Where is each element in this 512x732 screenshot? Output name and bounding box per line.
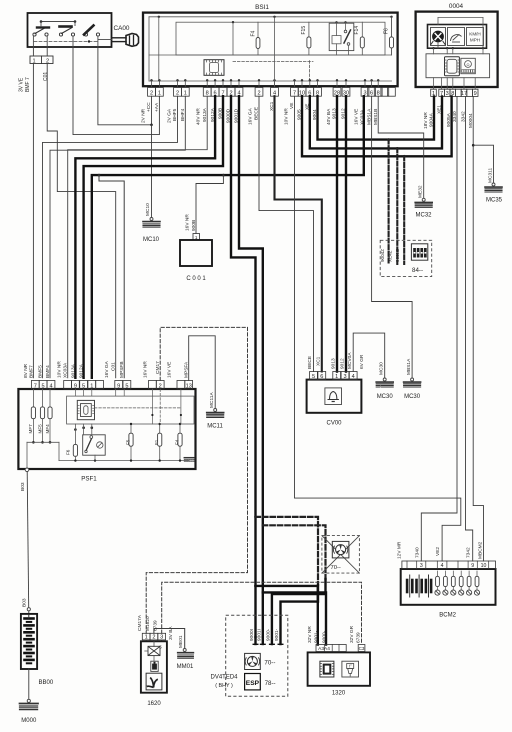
cluster pin row xyxy=(431,89,437,96)
svg-text:3: 3 xyxy=(420,563,423,569)
buzzer CV00 xyxy=(307,380,362,413)
svg-text:3: 3 xyxy=(343,374,346,380)
crossed-out option box 70 xyxy=(322,536,360,574)
odometer symbol xyxy=(461,58,475,73)
wire 3342 cluster to BDM2 xyxy=(466,96,473,561)
engine fusebox PSF1 xyxy=(18,389,195,469)
svg-text:7: 7 xyxy=(293,91,296,97)
svg-text:MBS1A: MBS1A xyxy=(406,358,412,375)
svg-text:Ω: Ω xyxy=(467,62,470,67)
PSF1 relay xyxy=(83,435,106,455)
svg-text:XC1: XC1 xyxy=(316,356,322,366)
svg-text:0004: 0004 xyxy=(449,3,464,10)
wire M1620 to ground MM01 xyxy=(154,629,185,649)
wire 9012 thick BSI1 to CV00 xyxy=(345,96,347,371)
svg-text:16V GA: 16V GA xyxy=(248,107,254,125)
svg-text:9: 9 xyxy=(474,91,477,97)
svg-text:1: 1 xyxy=(145,634,148,640)
svg-text:BCM2: BCM2 xyxy=(439,613,456,619)
ground MC30 left xyxy=(383,378,386,381)
ignition switch CA00 xyxy=(28,13,112,47)
PSF1 inner dashed link xyxy=(95,407,161,409)
dashed wires to connector 84 xyxy=(387,138,390,141)
fuse F14 xyxy=(361,22,363,55)
svg-text:MPH: MPH xyxy=(470,38,480,43)
wire 9000D thick staircase to engine bay xyxy=(231,96,256,637)
svg-text:40V NR: 40V NR xyxy=(196,108,202,125)
svg-text:A3A4: A3A4 xyxy=(318,646,330,652)
BSI1 inner structure xyxy=(149,16,392,18)
svg-text:7342: 7342 xyxy=(466,547,472,558)
svg-text:DV4TED4: DV4TED4 xyxy=(210,675,238,681)
svg-text:M1620: M1620 xyxy=(145,616,151,631)
BDM2 pin strip xyxy=(402,561,496,569)
svg-text:5: 5 xyxy=(312,374,315,380)
svg-text:( BHY ): ( BHY ) xyxy=(215,683,233,689)
dashed engine wire variant B xyxy=(263,525,326,579)
svg-text:2: 2 xyxy=(150,91,153,97)
svg-text:BMF4: BMF4 xyxy=(45,365,51,378)
svg-text:4: 4 xyxy=(441,563,444,569)
svg-text:16V NR: 16V NR xyxy=(185,214,191,231)
KM/H MPH text icon xyxy=(467,28,484,46)
svg-text:2: 2 xyxy=(152,634,155,640)
svg-text:MBCM2: MBCM2 xyxy=(477,541,483,559)
dashed engine wire variant A xyxy=(256,517,319,585)
connector C001 xyxy=(193,234,200,241)
svg-text:F6: F6 xyxy=(65,449,70,455)
wire XC03A thick BSI1 to PSF1 long xyxy=(92,96,364,378)
PSF1 pin rows xyxy=(31,381,39,390)
svg-text:9: 9 xyxy=(117,383,120,389)
svg-text:MC35: MC35 xyxy=(486,198,503,204)
svg-text:BSI1: BSI1 xyxy=(255,4,269,11)
svg-text:10: 10 xyxy=(481,563,487,569)
svg-text:F4: F4 xyxy=(250,30,256,36)
PSF1 internals xyxy=(67,396,194,424)
svg-text:3V VE: 3V VE xyxy=(19,77,25,92)
1620 lamp icon xyxy=(153,641,155,646)
wire MBS1A BSI1 to ground MC30 xyxy=(372,96,413,377)
svg-text:17: 17 xyxy=(461,91,467,97)
wire BHF5 BSI1 to PSF1 xyxy=(43,96,178,378)
svg-text:MC11A: MC11A xyxy=(209,392,215,408)
svg-text:1: 1 xyxy=(184,91,187,97)
svg-text:6: 6 xyxy=(320,374,323,380)
ground MM01 xyxy=(183,649,186,652)
speedometer icon xyxy=(448,28,465,46)
svg-text:10V NR: 10V NR xyxy=(56,361,62,378)
ground M000 xyxy=(28,669,30,699)
svg-text:10V NR: 10V NR xyxy=(284,108,290,125)
instrument cluster 0004 xyxy=(416,12,498,87)
1620 battery icon xyxy=(151,661,158,671)
1620 fan icon xyxy=(146,673,162,690)
wire MPSFB into PSF1 xyxy=(98,174,101,177)
wire +AA from CA00 to BSI1 xyxy=(73,47,159,135)
connector 84 dip component xyxy=(411,244,427,260)
svg-text:MC10: MC10 xyxy=(145,203,151,216)
svg-text:9000-: 9000- xyxy=(266,628,272,641)
glow plug box 1320 xyxy=(308,652,370,685)
svg-text:40V BA: 40V BA xyxy=(326,108,332,125)
wire B03 inside PSF1 xyxy=(26,442,28,468)
engine wire ends 9000I 9001I xyxy=(254,637,256,644)
wire VE BSI1 down and around to BDM2 xyxy=(295,96,461,561)
svg-text:9: 9 xyxy=(74,383,77,389)
svg-text:9001-: 9001- xyxy=(313,630,319,643)
svg-text:1: 1 xyxy=(158,91,161,97)
wire MBS1B BSI1 to ground MC32 xyxy=(378,96,424,198)
wire XE thick BSI1 to cluster xyxy=(310,96,442,148)
bell icon xyxy=(330,392,337,400)
1320 cpu icon xyxy=(320,661,334,677)
wire CM17 dashed from PSF1 to junction xyxy=(146,327,247,633)
svg-text:1320: 1320 xyxy=(332,691,346,697)
svg-text:F14: F14 xyxy=(354,26,360,35)
wire branch to connector C001 xyxy=(222,174,225,177)
svg-text:4: 4 xyxy=(49,383,52,389)
svg-text:PSF1: PSF1 xyxy=(81,476,97,483)
wire BECE BSI1 to CV00 xyxy=(259,96,314,371)
svg-text:70--: 70-- xyxy=(331,565,341,571)
svg-text:ME32: ME32 xyxy=(418,185,424,198)
svg-text:9013A: 9013A xyxy=(70,363,76,378)
microcontroller symbol in BSI1 xyxy=(204,60,224,76)
wire branch to MC35 ground xyxy=(472,144,475,147)
svg-text:M000: M000 xyxy=(21,718,37,724)
ground MC10 xyxy=(150,218,153,221)
svg-text:1620: 1620 xyxy=(147,701,161,707)
svg-text:MF4: MF4 xyxy=(45,424,50,434)
junction dots on engine wires xyxy=(254,516,257,519)
CV00 pin row xyxy=(310,372,318,380)
1320 injector icon xyxy=(342,661,359,677)
svg-text:VE2: VE2 xyxy=(435,547,441,556)
svg-text:KM/H: KM/H xyxy=(469,32,480,37)
svg-text:32V NR: 32V NR xyxy=(307,626,313,643)
BSI1 built-in systems interface box xyxy=(143,13,398,87)
svg-text:1: 1 xyxy=(90,383,93,389)
svg-text:MCV0A: MCV0A xyxy=(347,352,353,369)
svg-text:CA00: CA00 xyxy=(114,25,130,32)
svg-text:70--: 70-- xyxy=(264,659,275,666)
wire BHF4 BSI1 to PSF1 xyxy=(50,96,185,378)
svg-text:9: 9 xyxy=(471,563,474,569)
fuse F4 xyxy=(257,22,259,55)
wire 9013 thick BSI1 to CV00 xyxy=(336,96,338,371)
branches to injection pump 1320 xyxy=(254,585,257,588)
BSI1 bottom pin connectors xyxy=(148,88,156,97)
wire branch to MC10 ground xyxy=(150,124,153,127)
svg-text:MF7: MF7 xyxy=(28,424,33,434)
svg-text:ESP: ESP xyxy=(246,680,260,687)
PSF1 pin drop wires inside xyxy=(74,389,76,396)
svg-text:MM01: MM01 xyxy=(177,664,194,670)
svg-text:F15: F15 xyxy=(301,26,307,35)
svg-text:MC311: MC311 xyxy=(487,168,493,183)
svg-text:B03: B03 xyxy=(21,598,27,607)
svg-text:9000-: 9000- xyxy=(322,630,328,643)
BDM2 internal fuses xyxy=(437,571,439,576)
svg-text:9005Z: 9005Z xyxy=(395,249,400,262)
svg-text:6: 6 xyxy=(370,91,373,97)
fuse F6 in PSF1 xyxy=(74,428,77,431)
ground MC32 xyxy=(422,198,425,201)
svg-text:CV00: CV00 xyxy=(326,421,342,427)
ESP icon in ECU box xyxy=(245,674,261,690)
svg-text:7340: 7340 xyxy=(414,547,420,558)
svg-text:XC03A: XC03A xyxy=(63,362,69,378)
wire 3340 cluster to BDM2 xyxy=(421,96,457,561)
wire B03 PSF1 to battery xyxy=(25,468,29,472)
svg-text:t°: t° xyxy=(349,664,352,669)
svg-text:BECE: BECE xyxy=(307,356,313,369)
pre-post heating connector 1620 xyxy=(142,633,150,640)
cluster upper icon strip xyxy=(428,25,487,49)
svg-text:C01: C01 xyxy=(43,72,49,81)
svg-text:F1: F1 xyxy=(154,439,159,445)
svg-text:BMF 7: BMF 7 xyxy=(25,77,31,92)
cluster cpu symbol xyxy=(445,57,460,76)
svg-text:2: 2 xyxy=(257,91,260,97)
svg-text:MC30: MC30 xyxy=(404,394,421,400)
svg-text:9000I: 9000I xyxy=(249,629,255,641)
BSI1 internal dashed control lines xyxy=(233,61,313,63)
svg-text:32V GR: 32V GR xyxy=(349,625,355,643)
PSF1 bottom bus xyxy=(58,442,60,460)
svg-text:1: 1 xyxy=(335,374,338,380)
wire 9012A thick BSI1 to PSF1 xyxy=(75,96,215,378)
svg-text:4: 4 xyxy=(352,374,355,380)
wire +CC from CA00 to BSI1 xyxy=(98,47,152,125)
ground MC30 right xyxy=(411,378,414,381)
engine relay box BDM2 xyxy=(401,569,496,605)
diesel injection ECU dashed box DV4TED4 xyxy=(226,615,288,696)
wire 9001D thick staircase to engine bay xyxy=(239,96,263,637)
svg-text:C01: C01 xyxy=(111,362,117,371)
svg-text:BMF5: BMF5 xyxy=(37,365,43,378)
wire 900B thick BSI1 to PSF1 xyxy=(84,96,223,378)
svg-text:84--: 84-- xyxy=(412,267,423,274)
svg-text:MC32: MC32 xyxy=(415,213,432,219)
svg-text:CM17A: CM17A xyxy=(137,614,143,631)
wire C01 from CA00 connector to PSF1 xyxy=(47,64,116,378)
svg-text:5: 5 xyxy=(125,383,128,389)
ground MC11 xyxy=(214,409,217,412)
svg-text:2: 2 xyxy=(176,91,179,97)
svg-text:18V NR: 18V NR xyxy=(423,112,429,129)
svg-text:12V MR: 12V MR xyxy=(396,541,402,559)
svg-text:MC30: MC30 xyxy=(379,362,385,375)
svg-text:F4: F4 xyxy=(174,439,179,445)
svg-text:F6: F6 xyxy=(384,28,390,34)
svg-text:5: 5 xyxy=(82,383,85,389)
svg-text:MC11: MC11 xyxy=(207,424,223,430)
svg-text:F5: F5 xyxy=(125,439,130,445)
wire 6739 dashed from 1620 to 1320 xyxy=(162,582,362,644)
svg-text:7: 7 xyxy=(34,383,37,389)
svg-text:16V GA: 16V GA xyxy=(104,360,110,378)
cluster lower electronics box xyxy=(426,54,490,78)
svg-text:MC30: MC30 xyxy=(377,394,394,400)
svg-text:900B: 900B xyxy=(191,220,197,231)
svg-text:9001I: 9001I xyxy=(257,629,263,641)
svg-text:2V NR: 2V NR xyxy=(141,108,147,123)
svg-text:8: 8 xyxy=(206,91,209,97)
svg-text:9012: 9012 xyxy=(340,358,346,369)
BDM2 internals battery cells xyxy=(409,575,411,597)
svg-text:5: 5 xyxy=(42,383,45,389)
svg-text:3: 3 xyxy=(160,634,163,640)
svg-text:B03: B03 xyxy=(20,482,26,491)
engine wire end ticks xyxy=(253,643,258,645)
svg-text:13: 13 xyxy=(186,383,192,389)
fuses MF7 MF5 MF4 xyxy=(32,389,34,442)
wire 9005 thick BSI1 to cluster xyxy=(302,96,452,156)
wire MPSFA from PSF1 to ground MC11 xyxy=(189,336,216,409)
svg-text:MF5: MF5 xyxy=(37,424,42,434)
svg-text:1: 1 xyxy=(32,58,35,64)
svg-text:XE4Z: XE4Z xyxy=(388,250,393,262)
svg-text:BMF7: BMF7 xyxy=(28,365,34,378)
svg-text:78--: 78-- xyxy=(265,680,276,687)
fuses F5 F1 F4 in PSF1 xyxy=(130,424,132,461)
svg-text:C 0 0 1: C 0 0 1 xyxy=(186,276,206,282)
wire XC1 BSI1 to CV00 xyxy=(275,96,322,371)
svg-text:2: 2 xyxy=(159,383,162,389)
1320 pins xyxy=(316,645,346,652)
key symbol xyxy=(112,37,126,39)
svg-text:16V VE: 16V VE xyxy=(354,109,360,125)
svg-text:3V BA: 3V BA xyxy=(168,626,174,640)
wire BMF7 from CA00 to PSF1 xyxy=(32,64,34,378)
wire MCV0A to ground MC30 xyxy=(353,333,385,378)
svg-text:6739: 6739 xyxy=(356,632,362,643)
svg-text:C3: C3 xyxy=(359,646,365,651)
connector C01 pins 1 2 under CA00 xyxy=(30,56,53,64)
svg-text:3: 3 xyxy=(446,91,449,97)
svg-text:BB00: BB00 xyxy=(39,680,54,686)
svg-text:ME01: ME01 xyxy=(178,635,184,648)
svg-text:16V VE: 16V VE xyxy=(166,362,172,378)
wire 9004 thick BSI1 to cluster xyxy=(318,96,435,139)
svg-text:6V GR: 6V GR xyxy=(359,354,365,369)
wire 9013A BSI1 to PSF1 thin xyxy=(68,96,208,378)
svg-text:8V NR: 8V NR xyxy=(23,363,29,378)
svg-text:9012A: 9012A xyxy=(79,363,85,378)
battery BB00 xyxy=(27,608,30,611)
svg-text:2V GA: 2V GA xyxy=(167,108,173,123)
svg-text:9001-: 9001- xyxy=(274,628,280,641)
fuse F6 xyxy=(391,17,393,55)
wire M0004 cluster to BDM2 xyxy=(473,96,483,561)
svg-text:16V NR: 16V NR xyxy=(142,361,148,378)
svg-text:8: 8 xyxy=(377,91,380,97)
svg-text:MC10: MC10 xyxy=(143,237,160,243)
ground MC35 xyxy=(492,183,495,186)
relay in BSI1 xyxy=(329,23,354,50)
fuse F15 xyxy=(308,22,310,55)
svg-text:9013: 9013 xyxy=(331,358,337,369)
PSF1 internal ground xyxy=(184,457,194,459)
cluster internal wires xyxy=(432,47,434,49)
fan icon in ECU box xyxy=(245,653,261,669)
warning lamp icon xyxy=(433,31,444,42)
svg-text:9004Z: 9004Z xyxy=(380,249,385,262)
connector 84 dashed box xyxy=(380,240,432,276)
